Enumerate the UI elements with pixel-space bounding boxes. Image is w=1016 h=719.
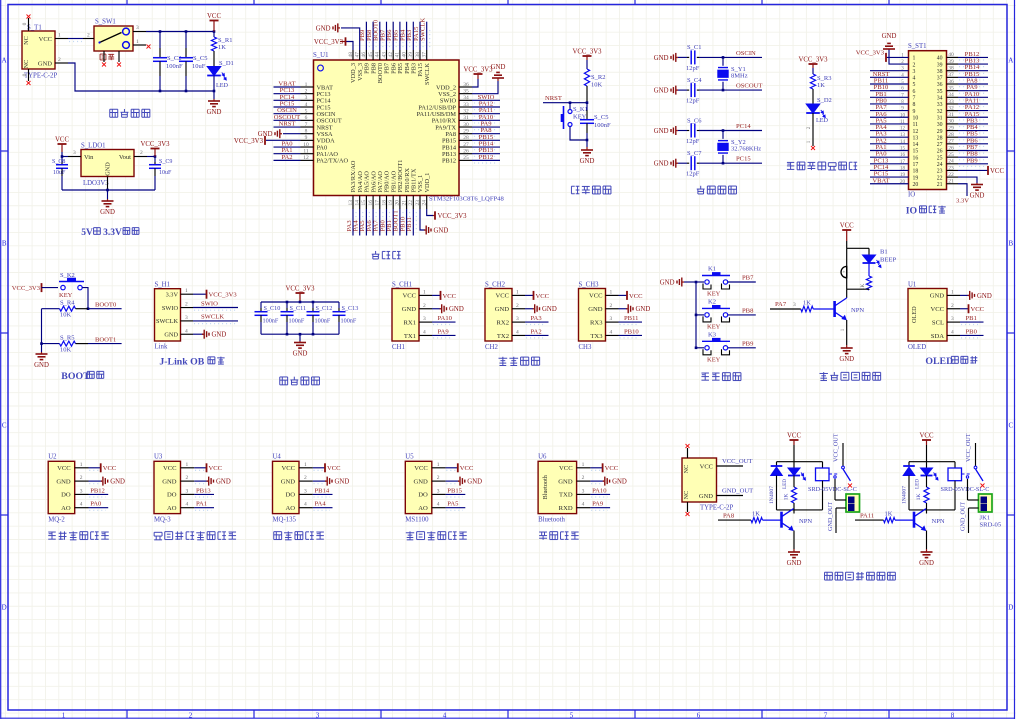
relay switch contact ch2 [962,433,984,481]
svg-text:3: 3 [80,488,83,494]
title 蓝牙模块 [539,532,579,540]
svg-text:CH3: CH3 [579,344,592,351]
U6 pin 2 GND [577,475,627,486]
svg-text:LDO3V3: LDO3V3 [83,180,109,187]
U3 pin 2 GND [181,475,231,486]
svg-text:27: 27 [463,142,469,148]
svg-text:GND: GND [105,162,112,176]
relay emitter wire ch2 [926,531,928,550]
power VCC_3V3 at VDDA pin9 [234,136,301,145]
ground GND alarm [839,345,854,363]
designator S_H1 [155,282,171,289]
svg-text:GND: GND [612,479,627,486]
wire Vout to VCC_3V3 [147,155,156,158]
svg-text:VCC: VCC [402,293,416,300]
svg-text:VCC: VCC [55,137,69,144]
svg-text:1: 1 [185,288,188,294]
svg-text:PB14: PB14 [315,487,330,494]
capacitor S_C12 100nF [307,302,333,334]
no-ERC mark relay contact ch1 [848,484,852,488]
U5 pin 2 GND [432,475,482,486]
svg-text:40: 40 [948,52,954,58]
J-Link pins [181,288,194,334]
svg-text:VCC_3V3: VCC_3V3 [798,57,828,64]
relay bottom rail ch2 [909,509,955,511]
svg-text:1K: 1K [784,494,790,501]
IC S_U1 STM32F103C8T6 body [314,60,460,196]
svg-text:PB0: PB0 [966,328,978,335]
svg-text:GND: GND [558,478,573,485]
svg-text:Vout: Vout [119,154,131,161]
capacitor S_C8 10uF [52,157,68,191]
U1 pin 1 GND [947,289,992,300]
label STM32F103C8T6_LQFP48 [429,196,504,203]
net SWCLK wire [193,314,238,324]
svg-text:5: 5 [913,82,916,88]
relay LED ch1 [782,462,805,489]
svg-text:1: 1 [423,289,426,295]
svg-text:4: 4 [437,502,440,508]
label LDO3V3 [83,180,109,187]
svg-text:MS1100: MS1100 [405,517,429,524]
svg-text:PA1: PA1 [196,501,207,508]
label SRD-05VDC-SL-C ch2 [941,486,990,493]
svg-text:4: 4 [186,502,189,508]
svg-text:MQ-2: MQ-2 [48,517,65,524]
no-ERC mark run LED [811,146,815,150]
push button K1 [696,266,756,298]
diode 1N4007 ch2 [902,462,915,510]
svg-text:38: 38 [937,69,943,75]
svg-text:7: 7 [305,122,308,128]
svg-text:S_LDO1: S_LDO1 [81,143,106,150]
svg-text:10uF: 10uF [53,170,66,176]
svg-text:100nF: 100nF [594,122,611,129]
svg-text:4: 4 [80,502,83,508]
svg-text:28: 28 [948,132,954,138]
svg-text:SRD-05: SRD-05 [980,521,1002,528]
svg-text:PB13: PB13 [196,487,211,494]
svg-text:PB11: PB11 [406,217,413,231]
svg-text:17: 17 [375,200,381,206]
ground GND power block [207,91,222,116]
title J-Link OB接口 [159,357,224,368]
power VCC ST1 pin23 [958,166,1004,175]
svg-text:6: 6 [697,712,701,719]
svg-text:1K: 1K [803,300,811,307]
svg-text:46: 46 [361,52,367,58]
svg-text:GND_OUT: GND_OUT [960,502,967,531]
label 开关 switch [100,54,114,60]
svg-text:SWCLK: SWCLK [156,318,178,325]
svg-text:VCC_3V3: VCC_3V3 [12,285,41,292]
connector S_ST1 body [909,51,947,190]
svg-text:NC: NC [683,491,690,500]
svg-text:S_C1: S_C1 [687,44,701,51]
svg-text:9: 9 [305,135,308,141]
svg-text:42: 42 [388,52,394,58]
svg-text:AO: AO [285,505,295,512]
capacitor S_C5 100nF reset [580,103,611,147]
svg-text:VCC_3V3: VCC_3V3 [285,286,315,293]
svg-text:33: 33 [463,102,469,108]
svg-text:33: 33 [948,99,954,105]
svg-text:VDD_1: VDD_1 [424,173,431,193]
svg-text:1K: 1K [752,511,760,518]
title BOOT电路 [61,371,103,382]
LED of alarm [863,248,897,267]
U6 pin 4 PA9 [577,501,611,511]
svg-text:32: 32 [948,105,954,111]
label TYPE-C-2P [24,73,57,80]
capacitor S_C11 100nF [281,302,307,334]
svg-text:GND: GND [414,478,429,485]
svg-text:B: B [2,240,7,248]
svg-text:47: 47 [355,52,361,58]
ground GND bottom of chip [424,226,448,235]
svg-text:NPN: NPN [851,307,864,314]
power VCC_3V3 at LDO out [140,141,170,157]
svg-text:BOOT0: BOOT0 [95,302,117,309]
svg-text:1: 1 [136,39,139,45]
svg-text:PA0: PA0 [90,501,102,508]
title 声光报警电路 [819,372,880,380]
svg-text:GND: GND [654,55,669,62]
svg-text:10uF: 10uF [192,63,206,70]
svg-text:PA7: PA7 [775,301,787,308]
terminal wires ch1 [827,479,846,533]
power VCC_3V3 run LED [798,57,828,69]
svg-text:3.3V: 3.3V [103,228,122,238]
ground GND top of chip [316,23,340,32]
svg-text:Bluetooth: Bluetooth [542,474,549,499]
base resistor 1K alarm [770,300,835,312]
relay LED ch2 [915,462,938,489]
svg-text:K3: K3 [708,331,716,338]
svg-text:VBAT: VBAT [872,177,889,184]
svg-text:LED: LED [816,117,829,124]
svg-text:1: 1 [951,289,954,295]
svg-text:S_C4: S_C4 [687,77,702,84]
svg-text:28: 28 [463,135,469,141]
svg-text:GND: GND [216,479,231,486]
S_CH1 pin 1 VCC [419,289,457,300]
svg-text:2: 2 [610,303,613,309]
svg-text:14: 14 [355,200,361,206]
designator U6 [538,453,547,460]
no-ERC mark bottom [27,81,31,85]
push button S_K2 KEY [59,272,84,299]
svg-text:SWCLK: SWCLK [424,63,431,85]
svg-text:GND: GND [654,88,669,95]
switch S_SW1 [94,26,133,51]
chip right pins 25-36 [459,82,472,161]
power VCC_3V3 at H1 pin1 [193,290,237,299]
svg-text:S_SW1: S_SW1 [95,19,116,26]
svg-text:4: 4 [185,328,188,334]
svg-text:36: 36 [948,79,954,85]
U5 pin 1 VCC [432,462,474,473]
svg-text:1N4007: 1N4007 [769,486,775,504]
svg-text:BOOT1: BOOT1 [95,336,116,343]
ST1 right pins and nets [947,51,989,185]
svg-text:S_R1: S_R1 [218,37,232,44]
svg-text:44: 44 [375,52,381,58]
svg-text:1: 1 [516,289,519,295]
svg-text:10: 10 [303,142,309,148]
svg-text:MQ-3: MQ-3 [154,517,171,524]
svg-text:GND: GND [38,60,52,67]
svg-text:30: 30 [463,122,469,128]
S_CH3 pin 3 PB11 [606,315,643,324]
svg-text:OSCOUT: OSCOUT [736,83,762,90]
svg-text:TX2: TX2 [497,333,509,340]
svg-text:NPN: NPN [799,518,812,525]
svg-text:S_T1: S_T1 [27,25,42,32]
svg-text:VCC: VCC [163,465,177,472]
U4 pin 2 GND [299,475,349,486]
svg-text:1: 1 [610,289,613,295]
svg-text:Link: Link [155,344,168,351]
svg-text:5: 5 [305,108,308,114]
ground GND filter [293,334,308,357]
svg-text:LED: LED [915,479,921,489]
svg-text:Bluetooth: Bluetooth [538,517,565,524]
svg-text:AO: AO [61,505,71,512]
svg-text:PA2/TX/AO: PA2/TX/AO [317,158,349,165]
svg-text:8: 8 [305,128,308,134]
net GND_OUT wire [717,488,754,496]
svg-text:S_C9: S_C9 [159,159,172,165]
wire VDD_2 to VCC_3V3 [463,67,493,88]
U1 pin 2 VCC [947,303,985,314]
label MQ-2 [48,517,65,524]
svg-text:8: 8 [951,712,955,719]
svg-text:1: 1 [437,462,440,468]
S_CH2 pin 2 GND [512,303,557,314]
serial header S_CH3 [579,289,606,342]
svg-text:PB15: PB15 [447,487,462,494]
svg-text:10K: 10K [60,346,72,353]
bottom rail wire [159,90,216,93]
svg-text:GND: GND [542,306,557,313]
svg-text:25: 25 [463,155,469,161]
U1 pin 4 PB0 [947,328,984,337]
svg-text:NC: NC [23,36,30,45]
filter bottom rail [261,333,339,336]
svg-text:TX1: TX1 [404,333,416,340]
svg-text:1: 1 [186,462,189,468]
net VCC_OUT wire [717,458,753,466]
svg-text:TXD: TXD [559,492,573,499]
relay switch contact ch1 [829,433,851,481]
svg-text:SRD-05VDC-SL-C: SRD-05VDC-SL-C [808,486,857,493]
svg-text:VCC_3V3: VCC_3V3 [572,49,602,56]
svg-text:A: A [2,57,7,65]
no-ERC marks relay connector [686,444,690,516]
svg-text:S_R2: S_R2 [591,74,605,81]
svg-text:S_C11: S_C11 [290,305,307,312]
svg-text:S_U1: S_U1 [313,52,329,59]
svg-text:PB8: PB8 [742,307,754,314]
svg-text:5: 5 [570,712,574,719]
title 5V转3.3V电路 [81,228,139,238]
svg-text:VCC_3V3: VCC_3V3 [314,39,344,46]
serial header S_CH2 [485,289,512,342]
svg-text:1: 1 [80,462,83,468]
ground GND ST1 pin22 [958,177,984,199]
connector S_T1 TYPE-C-2P [22,31,55,69]
svg-text:GND: GND [434,227,449,234]
terminal block JK ch1 [846,494,860,512]
svg-text:VCC: VCC [103,465,117,472]
svg-text:PA5: PA5 [447,501,459,508]
svg-text:NPN: NPN [932,518,945,525]
svg-text:GND: GND [335,479,350,486]
svg-text:3: 3 [913,69,916,75]
alarm emitter wire [841,320,847,345]
svg-text:+: + [843,271,846,276]
net NRST wire [543,95,588,104]
wire K2 to BOOT0 node [82,288,89,310]
wire GND of T1 to bottom rail [68,63,214,91]
svg-text:GND: GND [281,478,296,485]
svg-text:VCC: VCC [589,293,603,300]
svg-text:22: 22 [408,200,414,206]
svg-text:29: 29 [937,129,943,135]
svg-text:K1: K1 [708,266,716,273]
svg-text:100nF: 100nF [341,318,357,325]
push button S_K1 KEY [561,103,588,140]
LED S_D2 [806,97,832,146]
net BOOT1 wire [88,336,122,343]
designator S_CH3 [579,281,600,288]
svg-text:Vin: Vin [84,154,94,161]
svg-text:VCC: VCC [327,465,341,472]
transistor NPN relay ch1 [782,509,813,531]
svg-text:PA4: PA4 [315,501,327,508]
S_CH1 pin 2 GND [419,303,464,314]
svg-text:34: 34 [463,95,469,101]
pin 3 of SW1 [133,25,146,32]
ground GND keys [660,278,696,287]
svg-text:GND: GND [293,351,308,358]
ground GND reset [580,147,595,165]
svg-text:S_CH1: S_CH1 [392,281,412,288]
svg-text:PB7: PB7 [742,275,754,282]
power VCC_3V3 ST1 pin1 [856,49,909,62]
svg-text:IO: IO [906,206,918,217]
svg-text:VCC: VCC [605,465,619,472]
title 电源电路 [110,109,150,117]
svg-text:3: 3 [185,315,188,321]
serial header S_CH1 [392,289,419,342]
wire VSS_2 to GND [472,64,505,94]
svg-text:S_ST1: S_ST1 [908,43,927,50]
svg-text:GND: GND [34,362,49,369]
wire VSS_1 to GND bottom [420,209,425,230]
svg-text:13: 13 [913,135,919,141]
title IO拓展口 [906,206,946,217]
svg-text:PA2: PA2 [531,328,542,335]
resistor S_R2 10K [584,60,605,103]
svg-text:PC14: PC14 [736,123,751,130]
svg-text:35: 35 [463,88,469,94]
svg-text:20: 20 [913,182,919,188]
wire VDD_1 to VCC_3V3 bottom [427,209,433,216]
crystal S_Y1 8MHz with caps S_C1 S_C4 [654,44,763,104]
SW1 bottom pins [104,51,119,62]
svg-text:30: 30 [937,122,943,128]
svg-text:LED: LED [782,479,788,489]
capacitor S_C9 10uF [149,157,172,191]
svg-text:GND: GND [970,193,985,200]
svg-text:2: 2 [80,475,83,481]
svg-text:27: 27 [937,142,943,148]
net VCC_3V3 BOOT [12,283,58,292]
svg-text:DO: DO [167,492,177,499]
svg-text:VCC: VCC [281,465,295,472]
svg-text:23: 23 [937,169,943,175]
svg-text:GND: GND [654,161,669,168]
svg-text:40: 40 [401,52,407,58]
svg-text:2: 2 [87,33,90,39]
wire BOOT pulldown bus [40,309,43,352]
svg-text:5V: 5V [81,228,93,238]
svg-text:18: 18 [381,200,387,206]
svg-text:48: 48 [348,52,354,58]
svg-text:1: 1 [304,462,307,468]
svg-text:GND: GND [110,479,125,486]
svg-text:J-Link OB: J-Link OB [159,357,204,368]
svg-text:24: 24 [948,159,954,165]
title 甲醛检测模块 [406,531,467,539]
svg-text:19: 19 [388,200,394,206]
regulator S_LDO1 [81,150,134,177]
svg-text:38: 38 [948,66,954,72]
U2 pin 1 VCC [75,462,117,473]
svg-text:NRST: NRST [545,95,562,102]
resistor S_R4 10K [42,300,89,319]
svg-text:26: 26 [937,149,943,155]
capacitor S_C2 100nF [153,32,183,92]
svg-text:SDA: SDA [931,333,944,340]
svg-text:KEY: KEY [707,323,721,330]
svg-text:VCC: VCC [920,433,934,440]
no-ERC marks SW1 bottom [102,63,121,67]
svg-text:GND: GND [654,128,669,135]
formaldehyde sensor module U5 MS1100 [405,461,432,513]
svg-text:37: 37 [948,72,954,78]
svg-text:BEEP: BEEP [880,257,896,264]
alarm bottom rail [847,288,869,290]
svg-text:U4: U4 [273,453,282,460]
svg-text:LED: LED [216,82,229,89]
designator U4 [273,453,282,460]
svg-text:PA8: PA8 [723,513,735,520]
relay resistor 1K ch2 [916,476,929,510]
label SRD-05 ch2 [980,521,1002,528]
svg-text:NC: NC [683,465,690,474]
svg-text:GND: GND [977,293,992,300]
svg-text:1K: 1K [817,82,825,89]
bottom rail LDO [62,189,155,192]
svg-text:PA10: PA10 [438,315,453,322]
U4 pin 1 VCC [299,462,341,473]
svg-text:2: 2 [185,302,188,308]
title 串口电路 [498,357,539,366]
svg-text:4: 4 [305,102,308,108]
